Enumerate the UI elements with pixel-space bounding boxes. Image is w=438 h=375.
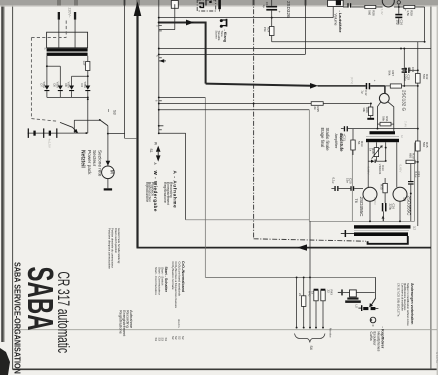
wire sec lead a	[367, 142, 369, 161]
svg-text:2SC132 G: 2SC132 G	[402, 90, 407, 112]
label 2SC132G	[402, 90, 407, 112]
capacitor C13b 100u	[339, 126, 348, 141]
svg-text:C16: C16	[400, 20, 404, 26]
contact tick 5b	[155, 55, 162, 58]
svg-text:S3: S3	[113, 110, 117, 115]
wire branch y103.5	[159, 103, 311, 105]
transformer S core bar 2	[47, 53, 88, 56]
contact tick corner	[159, 129, 162, 131]
wire T6 down	[369, 201, 371, 222]
svg-text:Registrazione: Registrazione	[119, 310, 124, 334]
wire right bus mid	[417, 83, 419, 141]
top band component shadows	[57, 0, 307, 5]
wire right bus upper	[417, 42, 419, 74]
amp box bottom edge	[309, 220, 414, 222]
node S4 bottom b	[303, 327, 305, 329]
text Abschn column header	[177, 319, 180, 328]
svg-text:Sezione rete: Sezione rete	[98, 150, 103, 177]
text Etage final block	[320, 128, 330, 152]
wire right corner drop	[424, 7, 426, 42]
transformer S primary winding box	[47, 32, 88, 48]
wire C12 to T3 top	[370, 86, 385, 94]
resistor R24 15k	[263, 18, 274, 42]
svg-text:D6: D6	[64, 84, 68, 88]
node branch y133.3	[158, 132, 160, 134]
wire rect link	[72, 75, 88, 77]
svg-text:R32: R32	[425, 74, 429, 80]
terminal plug output	[341, 230, 354, 237]
wire head line corner	[125, 137, 137, 139]
shield dash-dot horizontal	[254, 239, 366, 241]
svg-text:0,1μ: 0,1μ	[331, 178, 335, 184]
wire R38 down	[375, 157, 377, 162]
text legend W Wiedergabe	[145, 171, 158, 212]
label 220V~	[68, 8, 72, 18]
svg-text:R43: R43	[330, 290, 334, 296]
svg-text:C13: C13	[411, 67, 415, 73]
svg-text:C15: C15	[407, 75, 411, 81]
wire secondary loop thick	[368, 236, 408, 244]
switch blade battery	[60, 122, 78, 133]
text S2 references Normalband	[171, 336, 185, 340]
output transformer gap line	[354, 230, 409, 232]
svg-text:Monitor: Monitor	[328, 328, 332, 338]
svg-text:R27: R27	[391, 71, 395, 77]
border frame left	[12, 5, 14, 369]
svg-text:+: +	[373, 80, 377, 82]
switch S1 direction symbol	[149, 142, 161, 166]
svg-text:S2: S2	[171, 336, 175, 340]
signal flow return line bottom	[137, 247, 431, 249]
amp box right edge	[414, 143, 416, 222]
node fuse bottom	[87, 75, 89, 77]
capacitor C16 10u	[395, 9, 407, 25]
svg-text:Cuffia: Cuffia	[369, 332, 373, 341]
svg-text:C20: C20	[349, 178, 353, 184]
wire pcb outline left	[186, 219, 310, 221]
wire branch y54.4	[159, 53, 306, 55]
node S4 c	[309, 276, 311, 278]
resistor R43 22	[321, 289, 334, 328]
contact tick 5a	[155, 25, 161, 31]
text Aenderungen block	[397, 283, 414, 326]
wire erase head drop	[185, 133, 187, 220]
wire S4 stub a	[296, 277, 298, 327]
wire thick signal drop	[205, 22, 207, 84]
node S4 bottom a	[296, 327, 298, 329]
label bl	[400, 135, 404, 138]
label 7,4V T4	[380, 9, 384, 15]
svg-text:D7: D7	[39, 84, 43, 88]
label 0,58V	[373, 197, 377, 205]
wire motor junction right	[108, 133, 125, 135]
node sec left	[46, 65, 48, 67]
text Kopfhoerer block	[369, 327, 386, 352]
resistor R29 1,5k	[404, 5, 415, 16]
wire S4 column drop	[204, 97, 206, 277]
svg-text:2SD326: 2SD326	[286, 1, 291, 18]
wire feedback row y128.6	[348, 128, 418, 130]
svg-text:Con riserva di modifiche: Con riserva di modifiche	[401, 283, 405, 311]
connector dash-dot box	[197, 0, 216, 11]
wire sec lead b	[375, 142, 377, 147]
node right corner	[424, 41, 426, 43]
svg-text:C16: C16	[392, 204, 396, 210]
arrowhead return line	[297, 244, 307, 250]
resistor R31 56k	[378, 116, 394, 126]
svg-text:R35: R35	[425, 142, 429, 148]
wire rect link down	[71, 76, 73, 85]
transistor T6 2SD355C	[363, 187, 377, 201]
interstage transformer core bar 2	[366, 139, 399, 142]
svg-text:R28: R28	[371, 10, 375, 16]
svg-text:2SD355C: 2SD355C	[359, 197, 364, 218]
wire base lead T6	[367, 161, 369, 187]
wire secondary right lead upper	[87, 56, 89, 62]
wire T4 out	[394, 6, 404, 8]
wire R28 to T4	[376, 6, 383, 8]
wire switch top	[74, 119, 100, 121]
svg-text:LS: LS	[355, 305, 359, 309]
headphone contact circle	[370, 317, 376, 326]
amp box left edge	[308, 110, 310, 222]
chassis reference line (long gray)	[13, 329, 437, 331]
shield dash-dot vertical	[253, 0, 255, 239]
svg-text:Power pack: Power pack	[87, 150, 92, 175]
ground motor	[104, 188, 112, 190]
wire T5 down	[399, 201, 401, 222]
svg-text:CR 317 (CD 336) (92) 1277a: CR 317 (CD 336) (92) 1277a	[397, 283, 401, 317]
svg-text:D5: D5	[53, 84, 57, 88]
wire base line	[323, 103, 370, 105]
contact tick 6	[154, 100, 162, 102]
transformer S core bar 1	[47, 48, 88, 51]
wire R26 to ground	[370, 116, 372, 118]
wire motor feed	[107, 134, 109, 166]
label Monitor	[328, 328, 332, 338]
brace S4	[295, 334, 326, 343]
diode D7	[39, 82, 49, 98]
motor M	[102, 166, 115, 179]
svg-text:Suono: Suono	[215, 31, 219, 40]
node cap C18 top	[271, 17, 273, 19]
capacitor C17 stub	[343, 3, 365, 7]
wire speaker row	[343, 291, 375, 293]
contact stub y125.8	[158, 125, 164, 127]
svg-text:CR 317 automatic: CR 317 automatic	[55, 272, 74, 354]
node y48.5 C13	[400, 48, 402, 50]
title CR 317 automatic	[55, 272, 74, 354]
connector symbol	[199, 0, 212, 8]
text Netzteil block	[80, 150, 103, 177]
wire thick signal row	[206, 84, 311, 86]
wire secondary left lead	[46, 56, 48, 86]
transistor T3 2SC132G	[379, 93, 389, 103]
svg-text:560: 560	[368, 10, 372, 15]
resistor R32 560	[416, 74, 429, 84]
svg-text:S3: S3	[154, 338, 158, 342]
svg-text:Netzteil: Netzteil	[80, 150, 86, 168]
top scan band	[0, 0, 438, 7]
node branch y48.5	[158, 48, 160, 50]
resistor R35 560	[416, 141, 430, 151]
svg-text:R33: R33	[360, 141, 364, 147]
svg-text:Stadio finale: Stadio finale	[325, 128, 330, 152]
wire signal to C12	[318, 85, 333, 87]
wire headphone drop	[375, 277, 377, 298]
node branch y103.5	[158, 103, 160, 105]
interstage transformer core bar 1	[370, 131, 396, 134]
svg-text:T6: T6	[354, 199, 358, 203]
svg-text:R29: R29	[410, 10, 414, 16]
label 2SD326	[286, 1, 291, 18]
resistor R33 56	[351, 129, 364, 155]
node base	[370, 103, 372, 105]
label 7,4V T3	[404, 121, 408, 127]
wire branch y48.5	[159, 48, 431, 50]
left scan edge fade	[4, 0, 5, 342]
wire S4 stub c	[309, 221, 311, 327]
capacitor C18b 0,1u	[331, 178, 338, 192]
node branch y54.4	[158, 53, 160, 55]
wire rectifier bus	[47, 96, 88, 98]
print number	[435, 352, 438, 363]
svg-text:(0,7V): (0,7V)	[350, 77, 354, 84]
resistor R26 10k	[362, 107, 373, 116]
node branch y97.4	[158, 96, 160, 98]
svg-text:220V~: 220V~	[68, 8, 72, 18]
node S4 bottom c	[309, 327, 311, 329]
amp box tick marks	[382, 216, 385, 222]
svg-text:7,4V: 7,4V	[404, 121, 408, 127]
wire sec lead c	[385, 142, 387, 161]
svg-text:0,65V: 0,65V	[398, 165, 402, 173]
bottom-left scan corner blob	[0, 348, 10, 375]
node sec c1	[385, 147, 387, 149]
terminal plug top	[218, 0, 221, 12]
svg-text:D4: D4	[80, 84, 84, 88]
amp box inner edge	[351, 143, 353, 222]
diode D5	[53, 82, 63, 98]
wire S4 row	[205, 276, 375, 278]
node branch y17.6	[158, 17, 160, 19]
ground R26	[367, 118, 374, 120]
wire branch y133.3	[159, 132, 186, 134]
svg-text:b.l: b.l	[400, 135, 404, 138]
svg-text:- Kopfhörer: - Kopfhörer	[381, 327, 386, 349]
svg-text:1AT: 1AT	[82, 61, 86, 66]
left scan edge dark bar	[1, 0, 4, 342]
capacitor C16b 220u	[382, 203, 396, 221]
wire Klang pot corner	[159, 29, 175, 31]
wire mains lead R	[74, 20, 76, 48]
title SABA SERVICE-ORGANISATION	[12, 262, 22, 374]
svg-text:Registrazione: Registrazione	[163, 182, 167, 203]
resistor R44 1k	[311, 289, 319, 328]
svg-text:1,5k: 1,5k	[406, 10, 410, 16]
node S4 b	[303, 276, 305, 278]
mains lead stub L	[58, 12, 60, 20]
wire motor bottom	[107, 179, 109, 189]
text Gezeichnete block	[107, 228, 121, 269]
svg-text:C21: C21	[417, 172, 421, 178]
label S3	[109, 109, 117, 115]
diode D13 VD1033	[368, 160, 386, 175]
node motor junction	[107, 133, 109, 135]
resistor R28 560	[365, 5, 376, 16]
potentiometer Klang	[171, 1, 178, 9]
capacitor C21 0,1u	[408, 172, 421, 222]
switch S3 blade	[100, 120, 108, 126]
node branch y109.7	[158, 109, 160, 111]
wire S3 down	[107, 126, 109, 134]
svg-text:CrO₂/Nastro normale: CrO₂/Nastro normale	[171, 262, 175, 290]
music note icon	[220, 19, 228, 28]
text Endstufe block	[334, 134, 344, 153]
output transformer core bar 1	[354, 225, 411, 228]
svg-text:+: +	[277, 11, 281, 13]
dashed mains boundary riser	[65, 21, 67, 38]
node right bus y128	[417, 128, 419, 130]
headphone jack plug	[358, 305, 378, 311]
text legend A Aufnahme	[163, 171, 178, 209]
contact arrow stub	[159, 59, 166, 63]
svg-text:Abschn.: Abschn.	[177, 319, 180, 328]
terminal circle top	[397, 1, 400, 14]
svg-text:Änderungen vorbehalten: Änderungen vorbehalten	[410, 283, 414, 324]
node S4 a	[296, 276, 298, 278]
svg-text:R24: R24	[266, 27, 270, 33]
text Normalband block	[171, 261, 185, 309]
svg-text:Etage final: Etage final	[320, 128, 325, 148]
wire R27 out	[402, 85, 419, 87]
svg-text:Start - Commutatore: Start - Commutatore	[154, 267, 158, 295]
label T5	[402, 196, 411, 217]
resistor R39 680	[406, 153, 419, 164]
label 0,7V gray	[350, 77, 354, 84]
svg-text:Volume: Volume	[334, 14, 338, 26]
node rect out mid	[87, 98, 89, 100]
wire sec tap link	[47, 65, 60, 67]
resistor R30b	[379, 178, 387, 203]
wire branch y109.7	[159, 109, 309, 111]
svg-text:C18: C18	[265, 2, 269, 8]
svg-text:Secteur: Secteur	[92, 150, 97, 167]
switch blade headphone	[369, 298, 375, 307]
node bat junction	[74, 132, 88, 134]
svg-text:Posizione disegnata commutazio: Posizione disegnata commutazione	[107, 228, 111, 269]
svg-text:W: W	[154, 142, 158, 145]
wire sec lead right	[396, 142, 398, 187]
dashed mains boundary top	[31, 37, 66, 39]
potentiometer Lautstaerke	[328, 0, 344, 6]
wire mains lead L	[58, 20, 60, 48]
svg-text:R30: R30	[379, 184, 383, 190]
svg-text:R31: R31	[385, 116, 389, 122]
wire rectifier out	[87, 97, 89, 133]
label T6	[354, 197, 364, 218]
mains lead stub R	[74, 12, 76, 20]
svg-text:3,2: 3,2	[413, 226, 417, 230]
svg-text:S4: S4	[309, 346, 313, 350]
label 0,65V left	[366, 167, 370, 175]
wire branch y97.4	[159, 96, 206, 98]
terminal speaker	[338, 289, 343, 295]
node C21 bottom	[410, 193, 412, 195]
wire base to R26	[370, 104, 372, 108]
wire signal thick to C12	[318, 85, 366, 87]
border frame bottom	[13, 368, 438, 370]
label 0,65V right	[398, 165, 402, 173]
wire bias row y41.8	[272, 41, 425, 43]
svg-text:Amplifier: Amplifier	[334, 134, 338, 150]
wire switch riser	[73, 120, 75, 133]
arrowhead thick y22.5	[186, 20, 194, 26]
wire branch thick y22.5	[159, 22, 206, 24]
svg-text:22: 22	[298, 293, 302, 297]
border frame right	[430, 0, 432, 369]
node thick start	[158, 21, 160, 23]
arrow motor feed	[106, 161, 111, 166]
capacitor C20 15n	[339, 178, 363, 191]
wire R29 to corner	[415, 6, 425, 8]
svg-text:4x1,5V: 4x1,5V	[48, 139, 52, 148]
wire right bus lower	[417, 151, 419, 226]
node rectifier bus	[87, 96, 89, 98]
svg-text:7,4V: 7,4V	[380, 9, 384, 15]
node feedback T3	[377, 128, 379, 130]
resistor R27 56k	[385, 71, 402, 89]
svg-text:S: S	[43, 48, 47, 50]
svg-text:M: M	[108, 170, 114, 174]
label S transformer	[43, 48, 47, 50]
svg-text:S1: S1	[149, 149, 153, 153]
transistor T4	[382, 0, 394, 7]
text Klang block	[215, 30, 228, 43]
wire T3 collector leg	[378, 102, 381, 129]
wire vertical head line	[124, 0, 126, 138]
trimmer R38 1k	[368, 145, 382, 158]
svg-text:SABA SERVICE-ORGANISATION: SABA SERVICE-ORGANISATION	[12, 262, 22, 374]
svg-text:Endstufe: Endstufe	[339, 134, 344, 153]
node S4 bottom e	[322, 327, 324, 329]
svg-text:SABA: SABA	[20, 267, 60, 331]
label S4	[309, 346, 313, 350]
node S4 bottom d	[315, 327, 317, 329]
node sec c2	[385, 160, 387, 162]
interstage gap line	[366, 136, 399, 138]
node T4 out	[398, 6, 400, 8]
label 3,2ohm	[413, 226, 417, 230]
wire contact bus	[158, 0, 160, 133]
capacitor C12 1u	[361, 80, 378, 96]
dashed mains boundary bottom	[31, 119, 58, 122]
capacitor C18 1u	[262, 0, 281, 18]
resistor R45 22	[298, 277, 311, 327]
svg-text:C12: C12	[364, 90, 368, 96]
text Lautstaerke block	[334, 11, 343, 34]
arrowhead signal row	[310, 83, 318, 89]
node dash base	[253, 103, 255, 105]
speaker LS	[345, 290, 361, 308]
text Start Schalter block	[154, 267, 168, 296]
wire volume riser	[304, 0, 306, 54]
svg-text:Riproduzione: Riproduzione	[145, 182, 149, 202]
capacitor C15 100u	[403, 68, 418, 81]
label 4x1,5V	[48, 139, 52, 148]
transistor T5 2SD355C	[393, 187, 407, 201]
output transformer core bar 2	[354, 232, 408, 236]
